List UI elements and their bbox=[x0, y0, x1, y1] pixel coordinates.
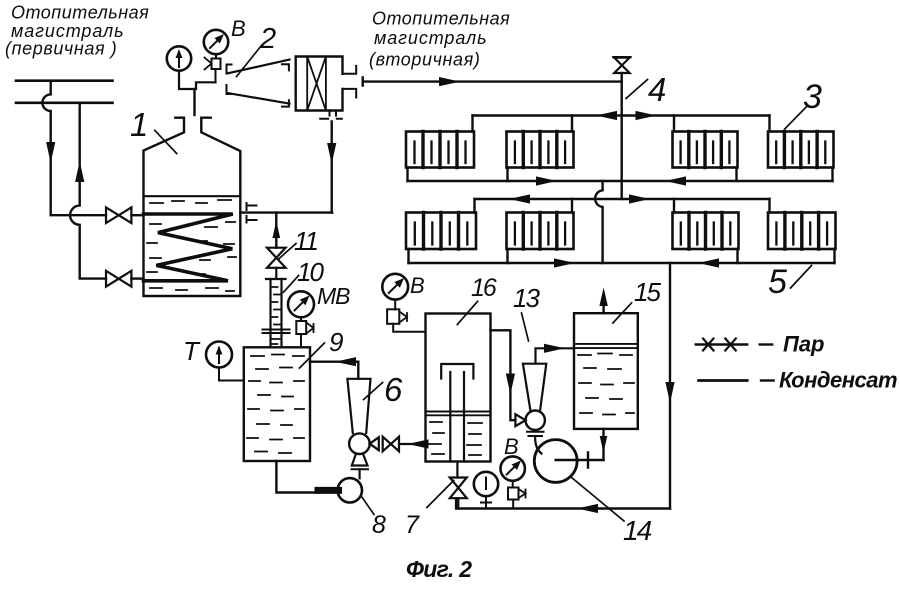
arrow: flow left into tank 9 bbox=[335, 357, 356, 366]
tank 16 inner tube bbox=[450, 372, 464, 462]
ejector 6 diffuser bbox=[352, 454, 368, 466]
wire: gauge stem bbox=[481, 496, 491, 508]
wire: distribution line 4 down to rows bbox=[621, 82, 623, 199]
wire: radiator A2 riser and drop bbox=[409, 199, 475, 263]
arrow: flow up on return riser bbox=[75, 161, 84, 182]
ejector 6 lower flange bbox=[352, 468, 369, 470]
wire: suction line from tank 16 bbox=[399, 443, 426, 445]
legend condensate line sample bbox=[699, 379, 748, 382]
label 10 with leader bbox=[297, 257, 324, 287]
gauge (thermometer) on bottom header bbox=[474, 472, 498, 496]
wire: condensate drop from mixing box bbox=[331, 122, 333, 213]
gauge B (tank 16) with label bbox=[410, 273, 425, 298]
pump 14 circle bbox=[534, 440, 577, 483]
radiator 3 row1 B bbox=[507, 132, 574, 168]
ejector 13 funnel bbox=[523, 364, 546, 411]
label 9 with leader bbox=[329, 327, 343, 357]
tank 1 water level bbox=[144, 195, 241, 197]
svg-text:13: 13 bbox=[513, 283, 540, 313]
three-way cock under МВ bbox=[300, 317, 302, 321]
label: Отопительная магистраль (первичная) bbox=[5, 3, 149, 59]
tank 9 shell bbox=[244, 347, 310, 461]
valve: primary supply gate valve bbox=[106, 207, 131, 223]
gauge МВ with label bbox=[317, 283, 350, 309]
wire: radiator A riser and drop bbox=[408, 116, 473, 182]
wire: tank 15 bottom drop to pump 14 line bbox=[602, 429, 604, 460]
radiator 5 row2 B bbox=[507, 213, 574, 250]
wire: inter-row drop with jump over row 2 supply bbox=[595, 181, 602, 263]
svg-text:15: 15 bbox=[634, 277, 661, 307]
arrow: flow right into tank 15 bbox=[544, 344, 565, 353]
wire: downcomer right side bbox=[669, 263, 671, 509]
label 16 with leader bbox=[471, 274, 497, 302]
ejector 6 suction cone bbox=[370, 437, 379, 450]
radiator 5 row2 A bbox=[406, 213, 476, 250]
tank 15 water dashes bbox=[578, 354, 634, 415]
tank 1 shell bbox=[144, 118, 241, 296]
wire: secondary main supply from mixing box bbox=[363, 78, 622, 86]
radiator 5 row2 D bbox=[768, 213, 836, 250]
wire: radiator B2 riser and drop bbox=[508, 199, 573, 263]
arrow: return flow left (right group) bbox=[698, 258, 719, 267]
wire: valve 7 to bottom header bbox=[457, 498, 459, 508]
wire: bottom condensate header bbox=[456, 498, 670, 508]
wire: МВ cock stem to tank 9 bbox=[300, 334, 302, 347]
svg-text:МВ: МВ bbox=[317, 283, 350, 309]
tank 16 water dashes bbox=[429, 422, 482, 455]
svg-text:16: 16 bbox=[471, 274, 497, 302]
tank 1 right outlet flange bbox=[247, 203, 257, 223]
wire: row 2 supply line bbox=[475, 198, 770, 200]
wire: radiator B riser and drop bbox=[508, 116, 573, 182]
wire: ejector 6 discharge into tank 9 bbox=[310, 362, 358, 379]
ejector 6 funnel bbox=[347, 379, 370, 433]
wire: return riser with jump over horizontal line bbox=[70, 103, 106, 279]
arrow: flow right on secondary main bbox=[439, 77, 460, 86]
tank 16 shell bbox=[426, 314, 491, 462]
gauge T with label bbox=[183, 336, 201, 366]
legend steam line sample bbox=[696, 343, 747, 345]
pump 8 circle bbox=[338, 478, 362, 502]
gauge B (bottom) with label bbox=[504, 434, 519, 459]
svg-text:11: 11 bbox=[294, 226, 318, 256]
svg-text:4: 4 bbox=[648, 71, 666, 108]
pump 8 suction (thick bar) bbox=[318, 487, 339, 494]
svg-text:Отопительная: Отопительная bbox=[11, 3, 149, 23]
svg-text:14: 14 bbox=[623, 515, 652, 546]
mixing box left flanges bbox=[282, 64, 289, 106]
three-way cock under gauge B bbox=[215, 54, 217, 58]
valve 4 (vertical) at top bbox=[614, 56, 631, 58]
svg-text:В: В bbox=[231, 16, 246, 41]
wire: valve to tank 1 coil inlet bbox=[131, 214, 143, 216]
wire: row 1 supply line bbox=[473, 114, 770, 116]
mixing box bottom stubs and flanges bbox=[320, 111, 342, 119]
column 10 lower flange bbox=[263, 330, 290, 334]
svg-text:Пар: Пар bbox=[783, 332, 825, 357]
wire: condensate line from tank 1 to ejector drop bbox=[240, 211, 332, 213]
arrow: flow up toward condensate line bbox=[273, 221, 281, 239]
gauge B (vacuum) with label bbox=[231, 16, 246, 41]
arrow: return flow right (left group) bbox=[536, 176, 557, 185]
valve: ejector 6 suction valve bbox=[383, 437, 399, 452]
wire: riser to valve 4 bbox=[621, 73, 623, 82]
tank 15 water surface (double line) bbox=[574, 344, 638, 348]
label: Отопительная магистраль (вторичная) bbox=[369, 9, 510, 70]
wire: supply drop with jump over return pipe bbox=[42, 81, 106, 216]
wire: ejector 13 down to pump 14 bbox=[535, 436, 541, 454]
column 10 (gauge glass) bbox=[266, 278, 286, 280]
wire: tank 9 bottom drop to pump 8 bbox=[276, 461, 318, 493]
label 5 with leader bbox=[768, 263, 787, 301]
valve 11 (vertical) bbox=[267, 248, 286, 268]
ejector 2 diverging nozzle bbox=[227, 60, 290, 104]
label 15 with leader bbox=[634, 277, 661, 307]
label 8 with leader bbox=[372, 511, 386, 539]
svg-text:магистраль: магистраль bbox=[374, 28, 487, 48]
svg-text:Отопительная: Отопительная bbox=[372, 9, 510, 29]
tank 9 water dashes bbox=[247, 355, 304, 454]
radiator 5 row2 C bbox=[673, 213, 739, 250]
svg-text:Т: Т bbox=[183, 336, 201, 366]
arrow: flow left toward ejector 6 bbox=[408, 439, 429, 448]
label 11 with leader bbox=[294, 226, 318, 256]
svg-text:(вторичная): (вторичная) bbox=[369, 50, 480, 70]
arrow: supply splits left bbox=[596, 111, 617, 120]
arrow: flow down to ejector 13 bbox=[506, 374, 515, 395]
wire: cock to tank 16 bbox=[393, 324, 425, 332]
svg-text:3: 3 bbox=[803, 78, 822, 116]
radiator 3 row1 C bbox=[673, 132, 738, 168]
ejector 13 suction cone bbox=[515, 414, 525, 426]
tank 1 heating coil (thick zigzag) bbox=[144, 214, 233, 281]
arrow: flow down on supply drop bbox=[46, 142, 55, 163]
ejector 13 mixing chamber circle bbox=[526, 411, 545, 430]
svg-text:2: 2 bbox=[259, 23, 276, 55]
label 1 with leader bbox=[130, 106, 148, 143]
tank 15 vent with up arrow bbox=[602, 297, 604, 313]
wire: radiator D riser and drop bbox=[770, 116, 833, 182]
wire: cock stem to header bbox=[512, 500, 514, 509]
label 4 with leader bbox=[648, 71, 666, 108]
wire: steam pipe into tank 1 neck bbox=[193, 89, 195, 115]
mixing box right stubs with flanges bbox=[343, 66, 357, 98]
wire: valve 11 to column 10 bbox=[275, 268, 277, 279]
arrow: supply flow left (left group) bbox=[509, 194, 530, 203]
wire: radiator C2 riser and drop bbox=[674, 199, 738, 263]
three-way cock under gauge B bbox=[394, 300, 396, 310]
tank 16 water surface (double line) bbox=[426, 412, 491, 416]
wire: row 1 return line bbox=[408, 180, 833, 182]
wire: gauge stem bbox=[179, 71, 216, 89]
svg-text:(первичная ): (первичная ) bbox=[5, 39, 117, 59]
arrow: flow left on bottom header bbox=[577, 504, 598, 513]
radiator 3 row1 A bbox=[406, 132, 474, 168]
wire: gauge T stem to tank 9 bbox=[219, 368, 244, 381]
wire: tank 16 drain bbox=[456, 462, 458, 478]
svg-text:9: 9 bbox=[329, 327, 343, 357]
arrow: supply flow right (right group) bbox=[629, 194, 650, 203]
arrow: supply splits right bbox=[636, 111, 657, 120]
three-way cock under gauge B bbox=[512, 481, 514, 488]
arrow: return flow left (right group) bbox=[665, 176, 686, 185]
label 7 with leader bbox=[405, 511, 420, 539]
label 13 with leader bbox=[513, 283, 540, 313]
ejector 6 mixing chamber circle bbox=[349, 433, 370, 454]
label 6 with leader bbox=[384, 371, 403, 408]
arrow: flow down from tank 15 bbox=[600, 436, 608, 453]
arrow: return flow right (left group) bbox=[554, 258, 575, 267]
wire: primary main supply pipe bbox=[16, 79, 113, 82]
radiator 3 row1 D bbox=[768, 132, 834, 168]
svg-text:6: 6 bbox=[384, 371, 403, 408]
wire: drop from condensate line to valve 11 bbox=[275, 213, 277, 248]
ejector 2 inlet brackets bbox=[227, 65, 232, 95]
wire: radiator D2 riser and drop bbox=[770, 199, 835, 263]
ejector 13 lower flanges bbox=[527, 432, 544, 436]
wire: tank 16 outlet to ejector 13 bbox=[491, 330, 516, 420]
arrow: flow down on downcomer bbox=[665, 382, 674, 403]
svg-text:7: 7 bbox=[405, 511, 420, 539]
valve: primary return gate valve bbox=[106, 271, 131, 287]
svg-text:5: 5 bbox=[768, 263, 787, 301]
tank 16 inner cap bbox=[441, 364, 473, 379]
mixing box shell bbox=[296, 57, 343, 111]
pump 14 outlet line with flange bbox=[556, 453, 604, 468]
svg-text:Конденсат: Конденсат bbox=[779, 368, 897, 393]
mixing box inner element with X bbox=[307, 57, 326, 111]
wire: row 2 return line bbox=[409, 262, 835, 264]
wire: ejector 13 discharge to tank 15 bbox=[536, 348, 575, 363]
gauge: pressure gauge (up arrow) bbox=[167, 46, 191, 70]
label 2 with leader bbox=[259, 23, 276, 55]
label 14 with leader bbox=[623, 515, 652, 546]
wire: radiator C riser and drop bbox=[674, 116, 737, 182]
label 3 with leader bbox=[803, 78, 822, 116]
tank 15 shell bbox=[574, 313, 638, 429]
wire: pump 8 to ejector 6 bbox=[359, 469, 361, 478]
svg-text:В: В bbox=[410, 273, 425, 298]
svg-text:Фиг. 2: Фиг. 2 bbox=[406, 556, 472, 582]
wire: primary main return pipe bbox=[16, 102, 113, 105]
arrow: flow down to condensate line bbox=[327, 143, 336, 164]
wire: valve to tank 1 coil outlet bbox=[131, 277, 143, 279]
valve 7 (vertical) bbox=[450, 478, 467, 499]
svg-text:1: 1 bbox=[130, 106, 148, 143]
tank 1 water dashes bbox=[147, 200, 236, 291]
